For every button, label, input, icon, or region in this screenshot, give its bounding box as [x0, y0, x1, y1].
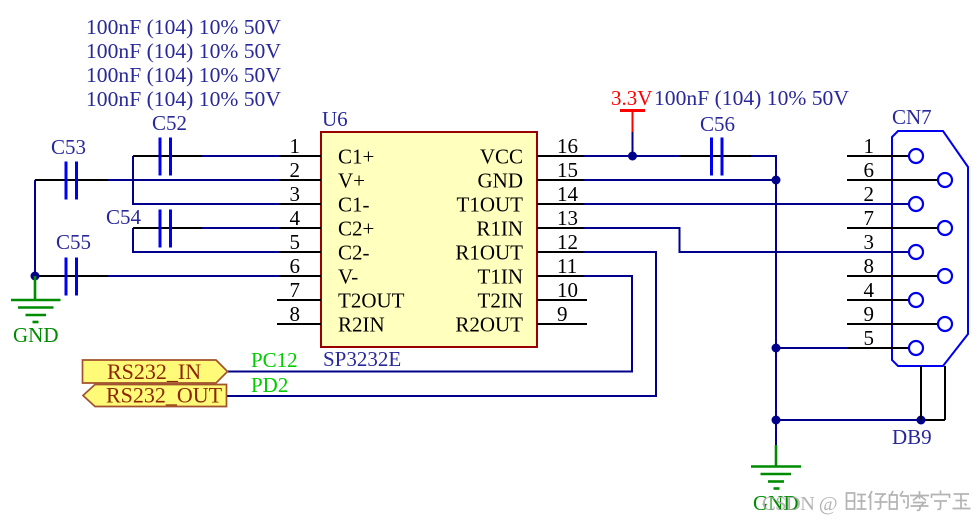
svg-text:3: 3	[290, 182, 301, 206]
wire T1IN pin11 down to RS232_IN	[227, 276, 632, 372]
svg-text:11: 11	[557, 254, 577, 278]
wire C54 left jog down to C2- row	[133, 228, 280, 252]
svg-text:5: 5	[290, 230, 301, 254]
pin 5 C2-	[280, 230, 370, 265]
svg-text:100nF (104) 10% 50V: 100nF (104) 10% 50V	[86, 63, 281, 87]
wire left ground rail	[34, 180, 36, 276]
svg-text:100nF (104) 10% 50V: 100nF (104) 10% 50V	[654, 86, 849, 110]
CN7 shield pin right	[944, 366, 946, 420]
svg-text:R2OUT: R2OUT	[455, 313, 523, 337]
pin 13 R1IN	[476, 206, 584, 241]
svg-text:C56: C56	[700, 112, 735, 136]
wire GND pin15 to ground rail	[584, 179, 776, 181]
CN7 pin 5	[847, 326, 909, 350]
CN7 pin circles right column	[938, 173, 952, 331]
pin 12 R1OUT	[455, 230, 584, 265]
svg-text:12: 12	[557, 230, 578, 254]
wire C55 to pin6 V-	[108, 275, 280, 277]
svg-text:T2IN: T2IN	[478, 289, 524, 313]
svg-text:PC12: PC12	[251, 348, 298, 372]
node junction ground rail bottom	[772, 416, 781, 425]
wire R1OUT pin12 down to RS232_OUT	[227, 252, 656, 396]
pin 16 VCC	[480, 134, 584, 169]
IC U6 body	[321, 132, 537, 347]
node junction shield drop	[917, 416, 926, 425]
svg-text:DB9: DB9	[892, 425, 932, 449]
wire right ground rail vertical	[775, 180, 777, 420]
wire VCC pin16 to C56	[584, 155, 680, 157]
svg-text:10: 10	[557, 278, 578, 302]
wire R1IN pin13 jog to CN7 pin3	[584, 228, 909, 252]
node junction left rail / C55	[31, 272, 40, 281]
svg-text:C1-: C1-	[338, 193, 370, 217]
pin 6 V-	[280, 254, 358, 289]
svg-text:U6: U6	[322, 107, 348, 131]
CN7 pin 9	[847, 302, 938, 326]
svg-text:GND: GND	[478, 169, 524, 193]
svg-text:7: 7	[290, 278, 301, 302]
svg-text:15: 15	[557, 158, 578, 182]
CN7 pin circles left column	[909, 149, 923, 355]
svg-text:R2IN: R2IN	[338, 313, 385, 337]
pin 11 T1IN	[478, 254, 585, 289]
node junction pin15 / ground rail	[772, 176, 781, 185]
wire C56 right to ground drop	[751, 156, 776, 180]
svg-text:GND: GND	[13, 323, 59, 347]
wire T1OUT pin14 to CN7 pin2	[584, 203, 909, 205]
svg-text:6: 6	[864, 158, 875, 182]
svg-text:RS232_OUT: RS232_OUT	[106, 383, 223, 408]
svg-text:7: 7	[864, 206, 875, 230]
svg-text:V-: V-	[338, 265, 358, 289]
svg-text:8: 8	[290, 302, 301, 326]
ground GND bottom	[751, 420, 801, 515]
wire C54 to pin4 C2+	[202, 227, 280, 229]
svg-text:6: 6	[290, 254, 301, 278]
svg-text:C54: C54	[106, 205, 142, 229]
svg-text:16: 16	[557, 134, 578, 158]
svg-text:100nF (104) 10% 50V: 100nF (104) 10% 50V	[86, 87, 281, 111]
pin 7 T2OUT	[277, 278, 405, 313]
node junction 3.3V / VCC	[628, 152, 637, 161]
svg-text:C52: C52	[152, 111, 187, 135]
svg-text:SP3232E: SP3232E	[323, 347, 401, 371]
svg-text:CN7: CN7	[892, 105, 932, 129]
power 3.3V	[611, 86, 652, 132]
svg-text:1: 1	[864, 134, 875, 158]
wire 3.3V stem to VCC net	[632, 132, 634, 156]
svg-text:C53: C53	[51, 135, 86, 159]
svg-text:VCC: VCC	[480, 145, 523, 169]
svg-text:100nF (104) 10% 50V: 100nF (104) 10% 50V	[86, 15, 281, 39]
CN7 pin 6	[847, 158, 938, 182]
svg-text:C55: C55	[56, 230, 91, 254]
wire C53 to pin2 V+	[108, 179, 280, 181]
node junction ground rail / CN7 pin5	[772, 344, 781, 353]
svg-text:3.3V: 3.3V	[611, 86, 652, 110]
svg-text:9: 9	[557, 302, 568, 326]
pin 2 V+	[280, 158, 365, 193]
pin 9 R2OUT	[455, 302, 587, 337]
svg-text:PD2: PD2	[251, 373, 288, 397]
pin 8 R2IN	[277, 302, 385, 337]
CN7 shield pin left	[920, 366, 922, 420]
connector CN7 DB9 body	[892, 131, 968, 366]
capacitor C56	[700, 112, 751, 176]
svg-text:CSDN @: CSDN @	[762, 493, 837, 515]
svg-text:9: 9	[864, 302, 875, 326]
CN7 pin 4	[847, 278, 909, 302]
svg-text:R1IN: R1IN	[476, 217, 523, 241]
svg-text:C2-: C2-	[338, 241, 370, 265]
svg-text:V+: V+	[338, 169, 365, 193]
capacitor C53	[35, 135, 108, 200]
pin 14 T1OUT	[457, 182, 585, 217]
wire C52 left jog down to C1- row	[133, 156, 280, 204]
ground GND left	[11, 276, 61, 347]
capacitor C55	[35, 230, 108, 296]
wire ground rail to shield	[776, 419, 921, 421]
svg-text:C2+: C2+	[338, 217, 374, 241]
svg-text:T1OUT: T1OUT	[457, 193, 524, 217]
svg-text:8: 8	[864, 254, 875, 278]
port RS232_IN flag	[83, 359, 228, 384]
CN7 pin 8	[847, 254, 938, 278]
svg-text:C1+: C1+	[338, 145, 374, 169]
pin 1 C1+	[280, 134, 374, 169]
svg-text:T1IN: T1IN	[478, 265, 524, 289]
CN7 pin 2	[864, 182, 910, 206]
svg-text:13: 13	[557, 206, 578, 230]
svg-text:T2OUT: T2OUT	[338, 289, 405, 313]
svg-text:2: 2	[864, 182, 875, 206]
svg-text:5: 5	[864, 326, 875, 350]
pin 10 T2IN	[478, 278, 588, 313]
watermark CSDN	[762, 493, 837, 515]
svg-text:1: 1	[290, 134, 301, 158]
pin 3 C1-	[280, 182, 370, 217]
svg-text:100nF (104) 10% 50V: 100nF (104) 10% 50V	[86, 39, 281, 63]
CN7 pin 3	[864, 230, 910, 254]
svg-text:RS232_IN: RS232_IN	[107, 359, 201, 384]
svg-text:3: 3	[864, 230, 875, 254]
svg-text:R1OUT: R1OUT	[455, 241, 523, 265]
wire C52 to pin1	[202, 155, 280, 157]
wire CN7 pin5 to ground rail	[776, 347, 909, 349]
capacitor C54	[106, 205, 202, 248]
pin 4 C2+	[280, 206, 374, 241]
svg-text:2: 2	[290, 158, 301, 182]
pin 15 GND	[478, 158, 585, 193]
svg-text:4: 4	[290, 206, 301, 230]
svg-text:14: 14	[557, 182, 579, 206]
port RS232_OUT flag	[83, 383, 227, 408]
CN7 pin 7	[847, 206, 938, 230]
capacitor C52	[133, 111, 202, 176]
watermark CJK glyphs	[847, 491, 971, 511]
svg-text:4: 4	[864, 278, 875, 302]
CN7 pin 1	[847, 134, 909, 158]
